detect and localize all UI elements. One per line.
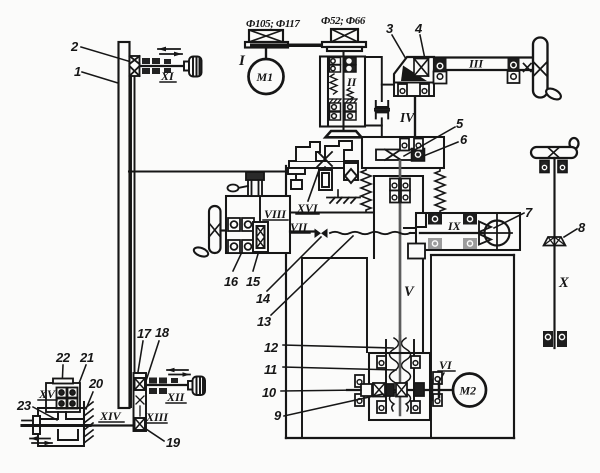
gears on XII	[149, 378, 178, 395]
svg-text:VI: VI	[439, 358, 453, 372]
shaft V	[399, 161, 402, 341]
handle of shaft X	[531, 138, 579, 158]
svg-text:8: 8	[578, 220, 586, 235]
bevel wheel 7	[485, 221, 510, 246]
worm pair 8	[544, 237, 566, 246]
bearings in lower gearbox	[377, 356, 386, 368]
housing ledge under pawl	[286, 212, 374, 214]
hatch stops in column	[329, 99, 357, 103]
svg-text:22: 22	[55, 350, 71, 365]
belt	[250, 44, 362, 48]
leader 5	[404, 127, 455, 156]
bevel pinion pair 7	[479, 222, 491, 245]
handwheel right	[533, 38, 548, 98]
ratchet top left block	[296, 142, 320, 161]
svg-text:20: 20	[88, 376, 104, 391]
leader 7	[494, 213, 524, 228]
svg-text:5: 5	[456, 116, 464, 131]
gears on shaft III	[434, 59, 447, 84]
right pawl block	[344, 163, 358, 180]
arrows XV	[30, 436, 52, 445]
coupling bars VI	[431, 380, 434, 400]
gears top of X	[540, 161, 549, 173]
worm on shaft V	[386, 336, 414, 415]
svg-text:IX: IX	[447, 219, 462, 233]
shaft XI	[140, 65, 184, 67]
svg-text:9: 9	[274, 408, 282, 423]
table screw flange	[33, 416, 40, 434]
bearing cross on III	[524, 64, 532, 72]
frame bottom	[286, 437, 514, 439]
leader 2	[81, 47, 128, 61]
gearbox 21-22	[46, 379, 80, 413]
frame right wall	[513, 255, 515, 438]
svg-text:1: 1	[74, 64, 81, 79]
bevel gear crossed	[414, 59, 429, 77]
solenoid 16	[317, 167, 325, 176]
spring left of column V	[361, 168, 371, 212]
bearing block left of IX	[408, 244, 425, 259]
leader 8	[564, 229, 577, 237]
leader 15	[253, 254, 258, 271]
gearbox of shaft IX	[416, 213, 520, 250]
column bar 1	[119, 42, 130, 408]
foot of column	[326, 131, 362, 137]
svg-text:VIII: VIII	[264, 207, 287, 221]
crossed slider 5	[376, 150, 412, 161]
bevel gear solid	[401, 66, 427, 82]
left pedestal	[288, 168, 305, 174]
svg-text:6: 6	[460, 132, 468, 147]
leader 16	[233, 254, 241, 271]
svg-text:V: V	[404, 284, 415, 300]
clutch symbol on IV	[365, 57, 394, 137]
apron gearbox VIII	[226, 196, 290, 253]
svg-text:11: 11	[264, 362, 277, 377]
rod from column to pawl housing	[129, 170, 286, 172]
svg-text:18: 18	[155, 325, 170, 340]
gears on shaft V	[390, 179, 399, 191]
handwheel grip	[193, 246, 210, 259]
gear rollers	[228, 218, 254, 253]
reciprocation arrows	[158, 47, 182, 57]
column box of shaft V	[374, 176, 423, 352]
svg-text:4: 4	[414, 21, 423, 36]
leader 22	[62, 365, 63, 388]
lower gearbox	[369, 353, 430, 420]
bearing box under bevel	[394, 83, 434, 97]
leader 13	[271, 236, 353, 315]
nut rack 20	[84, 402, 93, 443]
leader 11	[283, 367, 396, 370]
leader 23	[33, 407, 57, 420]
screw nut column XIII	[134, 373, 147, 431]
leader 1	[82, 72, 118, 83]
electromagnet knob 16	[228, 172, 265, 196]
shaft X	[553, 158, 555, 348]
leader 14	[267, 237, 321, 291]
leader 19	[146, 429, 164, 441]
svg-text:Ф52; Ф66: Ф52; Ф66	[321, 15, 366, 27]
svg-text:13: 13	[257, 314, 272, 329]
leader 18	[146, 341, 159, 381]
svg-text:12: 12	[264, 340, 279, 355]
leader VI	[438, 373, 444, 384]
leader 4	[420, 35, 426, 64]
overload clutch 14	[315, 229, 328, 239]
svg-text:21: 21	[79, 350, 94, 365]
svg-text:M2: M2	[459, 384, 477, 398]
svg-text:XIII: XIII	[145, 410, 169, 424]
svg-text:Ф105; Ф117: Ф105; Ф117	[246, 18, 300, 30]
worm gear 6 dark	[412, 149, 425, 162]
svg-text:II: II	[346, 75, 358, 89]
svg-text:7: 7	[525, 205, 533, 220]
handwheel grip	[544, 86, 562, 101]
knob of XII	[188, 377, 205, 396]
gears bottom of X	[543, 331, 567, 347]
couplings on M2 shaft	[361, 383, 424, 397]
spring on left column shaft	[330, 74, 337, 94]
svg-text:19: 19	[166, 435, 181, 450]
leader 3	[392, 35, 413, 71]
svg-text:2: 2	[70, 39, 79, 54]
leader 12	[283, 345, 393, 348]
svg-text:3: 3	[386, 21, 394, 36]
leader 17	[138, 341, 143, 372]
bearings outside left	[355, 375, 364, 387]
vertical shaft beside bar	[131, 76, 135, 407]
motor M1 shaft	[265, 48, 267, 59]
ratchet mechanism XVI bar	[288, 141, 358, 197]
wire to ground	[337, 190, 339, 197]
svg-text:15: 15	[246, 274, 261, 289]
svg-text:III: III	[468, 57, 484, 71]
spring right of column V	[435, 169, 445, 212]
frame inner box	[302, 258, 367, 438]
svg-text:23: 23	[16, 398, 32, 413]
table drive housing	[38, 408, 84, 446]
svg-text:10: 10	[262, 385, 277, 400]
shaft III rails	[434, 58, 533, 71]
svg-text:XI: XI	[160, 69, 175, 83]
svg-text:16: 16	[224, 274, 239, 289]
bearings outside right	[433, 372, 442, 384]
shaft VII stub	[290, 230, 316, 232]
clutch X on bar	[318, 152, 332, 166]
clutch 15	[253, 196, 268, 252]
engage bracket	[404, 228, 436, 258]
spring on shaft II	[347, 88, 353, 100]
pulley left	[245, 30, 288, 48]
bearings above 5	[400, 139, 409, 151]
svg-text:XV: XV	[38, 387, 56, 401]
svg-text:IV: IV	[399, 110, 415, 125]
leader 10	[281, 390, 361, 391]
table screw shaft	[22, 424, 90, 427]
feed box 5-6	[362, 137, 444, 168]
leader 6	[421, 142, 458, 157]
pulley right	[322, 29, 366, 51]
bevel housing 3-4	[394, 57, 434, 82]
gears on column shafts	[330, 58, 357, 121]
shaft to motor M2	[347, 389, 453, 391]
svg-text:X: X	[558, 275, 569, 291]
svg-text:17: 17	[137, 326, 152, 341]
frame left wall	[285, 166, 287, 438]
leader 20	[86, 392, 93, 409]
motor M2	[453, 374, 486, 407]
pawl lever line	[308, 170, 319, 201]
shaft stub	[221, 229, 227, 231]
knob of handle 2	[184, 57, 202, 77]
svg-text:XII: XII	[166, 390, 186, 404]
shaft XII	[146, 384, 188, 386]
svg-text:I: I	[238, 53, 246, 69]
ratchet top right block	[325, 141, 352, 161]
gearbox column shaft II	[320, 51, 365, 131]
shaft IV	[414, 97, 416, 151]
shaft XIV	[90, 424, 134, 426]
svg-text:XIV: XIV	[99, 409, 122, 423]
ground symbol	[327, 198, 360, 204]
gears on shaft XI	[142, 58, 171, 74]
motor M1	[249, 59, 284, 94]
flexible shaft 13	[330, 232, 410, 234]
frame top right	[431, 254, 514, 256]
gears on shaft IX	[428, 214, 477, 250]
svg-text:M1: M1	[256, 70, 274, 84]
leader 9	[284, 394, 383, 416]
shaft IX	[420, 232, 484, 234]
leader 21	[78, 365, 86, 386]
handwheel of cross feed	[209, 206, 221, 253]
frame inner right wall	[430, 255, 432, 438]
arrows XII	[167, 368, 190, 377]
svg-text:14: 14	[256, 291, 271, 306]
bearing bracket of handle 2	[130, 56, 140, 76]
